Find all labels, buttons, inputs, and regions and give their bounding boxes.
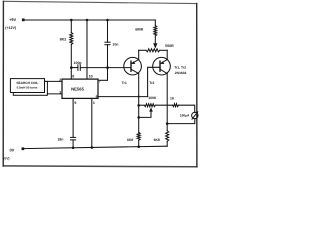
svg-text:8K2: 8K2 bbox=[60, 38, 67, 42]
wire 8K2 top lead bbox=[70, 20, 72, 33]
svg-text:6: 6 bbox=[96, 95, 98, 99]
svg-text:680R: 680R bbox=[135, 28, 144, 32]
wire meter bottom return bbox=[167, 119, 195, 124]
wire 1K to meter bbox=[179, 105, 195, 112]
svg-text:7: 7 bbox=[99, 80, 101, 84]
svg-text:9: 9 bbox=[74, 101, 76, 105]
svg-text:500R: 500R bbox=[165, 44, 174, 48]
resistor 680R bbox=[154, 26, 157, 37]
svg-text:18n: 18n bbox=[57, 137, 63, 141]
junction dot meter return bbox=[166, 122, 169, 125]
wiper arrowhead onto 100K bbox=[149, 107, 153, 111]
svg-text:NE565: NE565 bbox=[71, 86, 84, 91]
junction dot rail/10n bbox=[106, 19, 109, 22]
op-amp IC1 NE565 bbox=[62, 79, 98, 98]
svg-text:Tr1: Tr1 bbox=[122, 81, 127, 85]
node 0V supply terminal bbox=[22, 147, 25, 150]
wire Tr2 emitter riser bbox=[166, 50, 168, 59]
svg-text:(+12V): (+12V) bbox=[5, 26, 17, 30]
junction dot base node bbox=[106, 66, 109, 69]
wire pin 6 lead bbox=[98, 96, 148, 98]
search coil L1 shadow box bbox=[13, 81, 47, 95]
transistor Tr2 bbox=[153, 57, 171, 75]
wiper arrowhead onto 500R bbox=[153, 43, 157, 48]
svg-text:3: 3 bbox=[59, 90, 61, 94]
svg-text:8: 8 bbox=[72, 75, 74, 79]
svg-text:1K: 1K bbox=[170, 97, 175, 101]
svg-text:6K8: 6K8 bbox=[127, 138, 133, 142]
wire top +V rail bbox=[23, 19, 155, 21]
wire 100K lead bbox=[139, 104, 145, 106]
capacitor 100p bbox=[71, 67, 78, 69]
svg-text:100µA: 100µA bbox=[180, 114, 190, 118]
svg-text:0V: 0V bbox=[9, 147, 14, 152]
wire +V to pin 10 bbox=[86, 20, 88, 79]
junction dot pin1/rail bbox=[91, 146, 94, 149]
wire 680R to wiper arrow bbox=[154, 36, 156, 43]
svg-text:1: 1 bbox=[93, 101, 95, 105]
wire 100p to Tr1 base bbox=[80, 67, 131, 69]
wire 100K to 1K bbox=[155, 104, 172, 106]
junction dot 100K left bbox=[137, 104, 140, 107]
svg-text:100K: 100K bbox=[148, 96, 157, 100]
svg-text:10n: 10n bbox=[112, 42, 118, 46]
wire 8K2 bottom lead to pin8 node bbox=[70, 45, 72, 68]
svg-text:Tr1, Tr2: Tr1, Tr2 bbox=[174, 65, 186, 69]
wire coil to pin 2 bbox=[45, 80, 63, 82]
potentiometer 500R bbox=[146, 49, 160, 52]
resistor 6K8 left bbox=[137, 132, 140, 140]
wire Tr2 collector vertical bbox=[166, 74, 168, 131]
svg-text:Tr2: Tr2 bbox=[149, 81, 154, 85]
svg-text:10: 10 bbox=[89, 75, 93, 79]
svg-text:+9V: +9V bbox=[9, 17, 16, 22]
wire coil to pin 3 bbox=[47, 93, 62, 95]
capacitor 18n bbox=[71, 136, 76, 138]
junction dot wiper branch bbox=[137, 116, 140, 119]
search coil L1 box bbox=[10, 79, 44, 93]
svg-text:6K8: 6K8 bbox=[154, 138, 160, 142]
resistor 1K bbox=[173, 104, 179, 107]
meter M1 100uA bbox=[192, 112, 198, 118]
svg-text:2: 2 bbox=[59, 78, 61, 82]
resistor 8K2 bbox=[70, 33, 73, 45]
junction dot rail/pin10 bbox=[86, 19, 89, 22]
capacitor 10n bbox=[107, 20, 109, 42]
junction dot rail/8K2 bbox=[70, 19, 73, 22]
wire bottom 0V rail bbox=[23, 146, 167, 148]
wire Tr2 base bbox=[148, 67, 160, 96]
wire pin 9 lead bbox=[72, 98, 74, 137]
wire 10n to pin7/base node bbox=[107, 45, 109, 81]
resistor 6K8 right bbox=[166, 131, 169, 142]
node +9V supply terminal bbox=[22, 19, 25, 22]
svg-text:(0V): (0V) bbox=[3, 157, 9, 161]
junction dot 18n/rail bbox=[72, 147, 75, 150]
wire pin 7 lead bbox=[98, 79, 108, 81]
wire Tr1 emitter riser bbox=[138, 50, 140, 59]
svg-text:0.5mH 50 turns: 0.5mH 50 turns bbox=[17, 85, 38, 89]
wire Tr1 collector vertical bbox=[138, 74, 140, 133]
transistor Tr1 bbox=[124, 57, 142, 75]
potentiometer 100K bbox=[144, 104, 155, 107]
wire pin 1 lead to 0V bbox=[91, 98, 93, 147]
junction dot pin8 node bbox=[70, 66, 73, 69]
junction dot 6K8/rail bbox=[137, 145, 140, 148]
junction dot pin6/collector bbox=[138, 96, 140, 98]
wire pot line right bbox=[160, 49, 167, 51]
wire pin 8 lead bbox=[70, 68, 72, 80]
border frame bbox=[4, 1, 197, 3]
wire 100K wiper branch bbox=[139, 110, 151, 117]
wire rail corner to 680R bbox=[154, 20, 156, 26]
svg-text:2N3638: 2N3638 bbox=[175, 71, 187, 75]
wire pot line left bbox=[139, 49, 146, 51]
svg-text:100p: 100p bbox=[74, 61, 82, 65]
